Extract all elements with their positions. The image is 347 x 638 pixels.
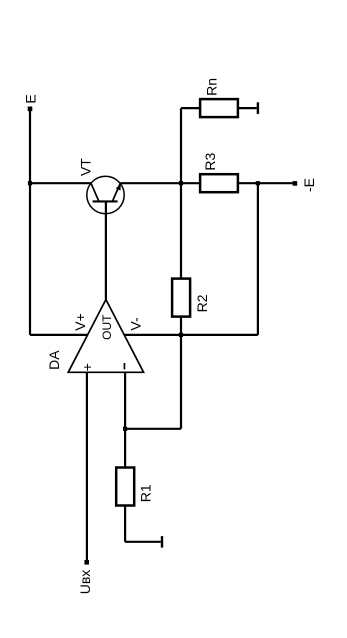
wire R1 bottom lead [124,506,126,542]
svg-text:R2: R2 [194,294,210,312]
wire Rn left lead [181,107,200,109]
wire V+ line horizontal [30,334,88,336]
node junction top line / feedback [256,181,260,185]
op-amp DA [68,300,143,373]
wire top line right segment [238,182,293,184]
resistor R2 [172,279,190,317]
ground bar bottom [161,536,163,548]
svg-text:Rn: Rn [204,78,220,96]
wire feedback vertical right [257,183,259,335]
svg-text:DA: DA [46,350,62,370]
wire R2 top lead [180,183,182,278]
wire top line left segment [30,182,91,184]
wire op-amp output to transistor base [105,202,107,300]
svg-text:R3: R3 [202,153,218,171]
label minus input [123,363,125,369]
svg-text:V-: V- [127,317,143,331]
wire top line middle segment [121,182,201,184]
wire Rn right lead [238,107,257,109]
wire inverting input lead [124,372,126,467]
terminal E [28,107,33,112]
svg-text:Uвх: Uвх [77,570,93,595]
wire E rail vertical [29,111,31,183]
ground bar after Rn [257,102,259,114]
resistor R1 [116,468,134,506]
terminal Uvx [84,560,89,565]
svg-text:V+: V+ [72,313,88,331]
wire to ground [125,541,161,543]
svg-text:VT: VT [77,158,93,176]
resistor Rn [200,99,238,117]
wire feedback to inverting input [125,428,181,430]
svg-text:OUT: OUT [100,314,114,340]
wire E rail down segment [29,183,31,335]
svg-text:-E: -E [301,178,317,192]
transistor VT [87,176,124,213]
svg-text:E: E [23,94,39,103]
svg-text:R1: R1 [138,484,154,502]
node junction feedback / inverting input [123,427,127,431]
node junction E rail / top line [28,181,32,185]
resistor R3 [200,174,238,192]
node junction R2 bottom / V- line [179,333,183,337]
terminal -E [293,181,298,186]
wire V- line horizontal [124,334,258,336]
wire R2 branch down [180,335,182,429]
wire non-inverting input lead [86,372,88,560]
node junction top line / Rn-R2 branch [179,181,183,185]
svg-text:+: + [79,363,95,371]
wire R2 bottom lead [180,317,182,335]
wire Rn branch vertical [180,108,182,183]
